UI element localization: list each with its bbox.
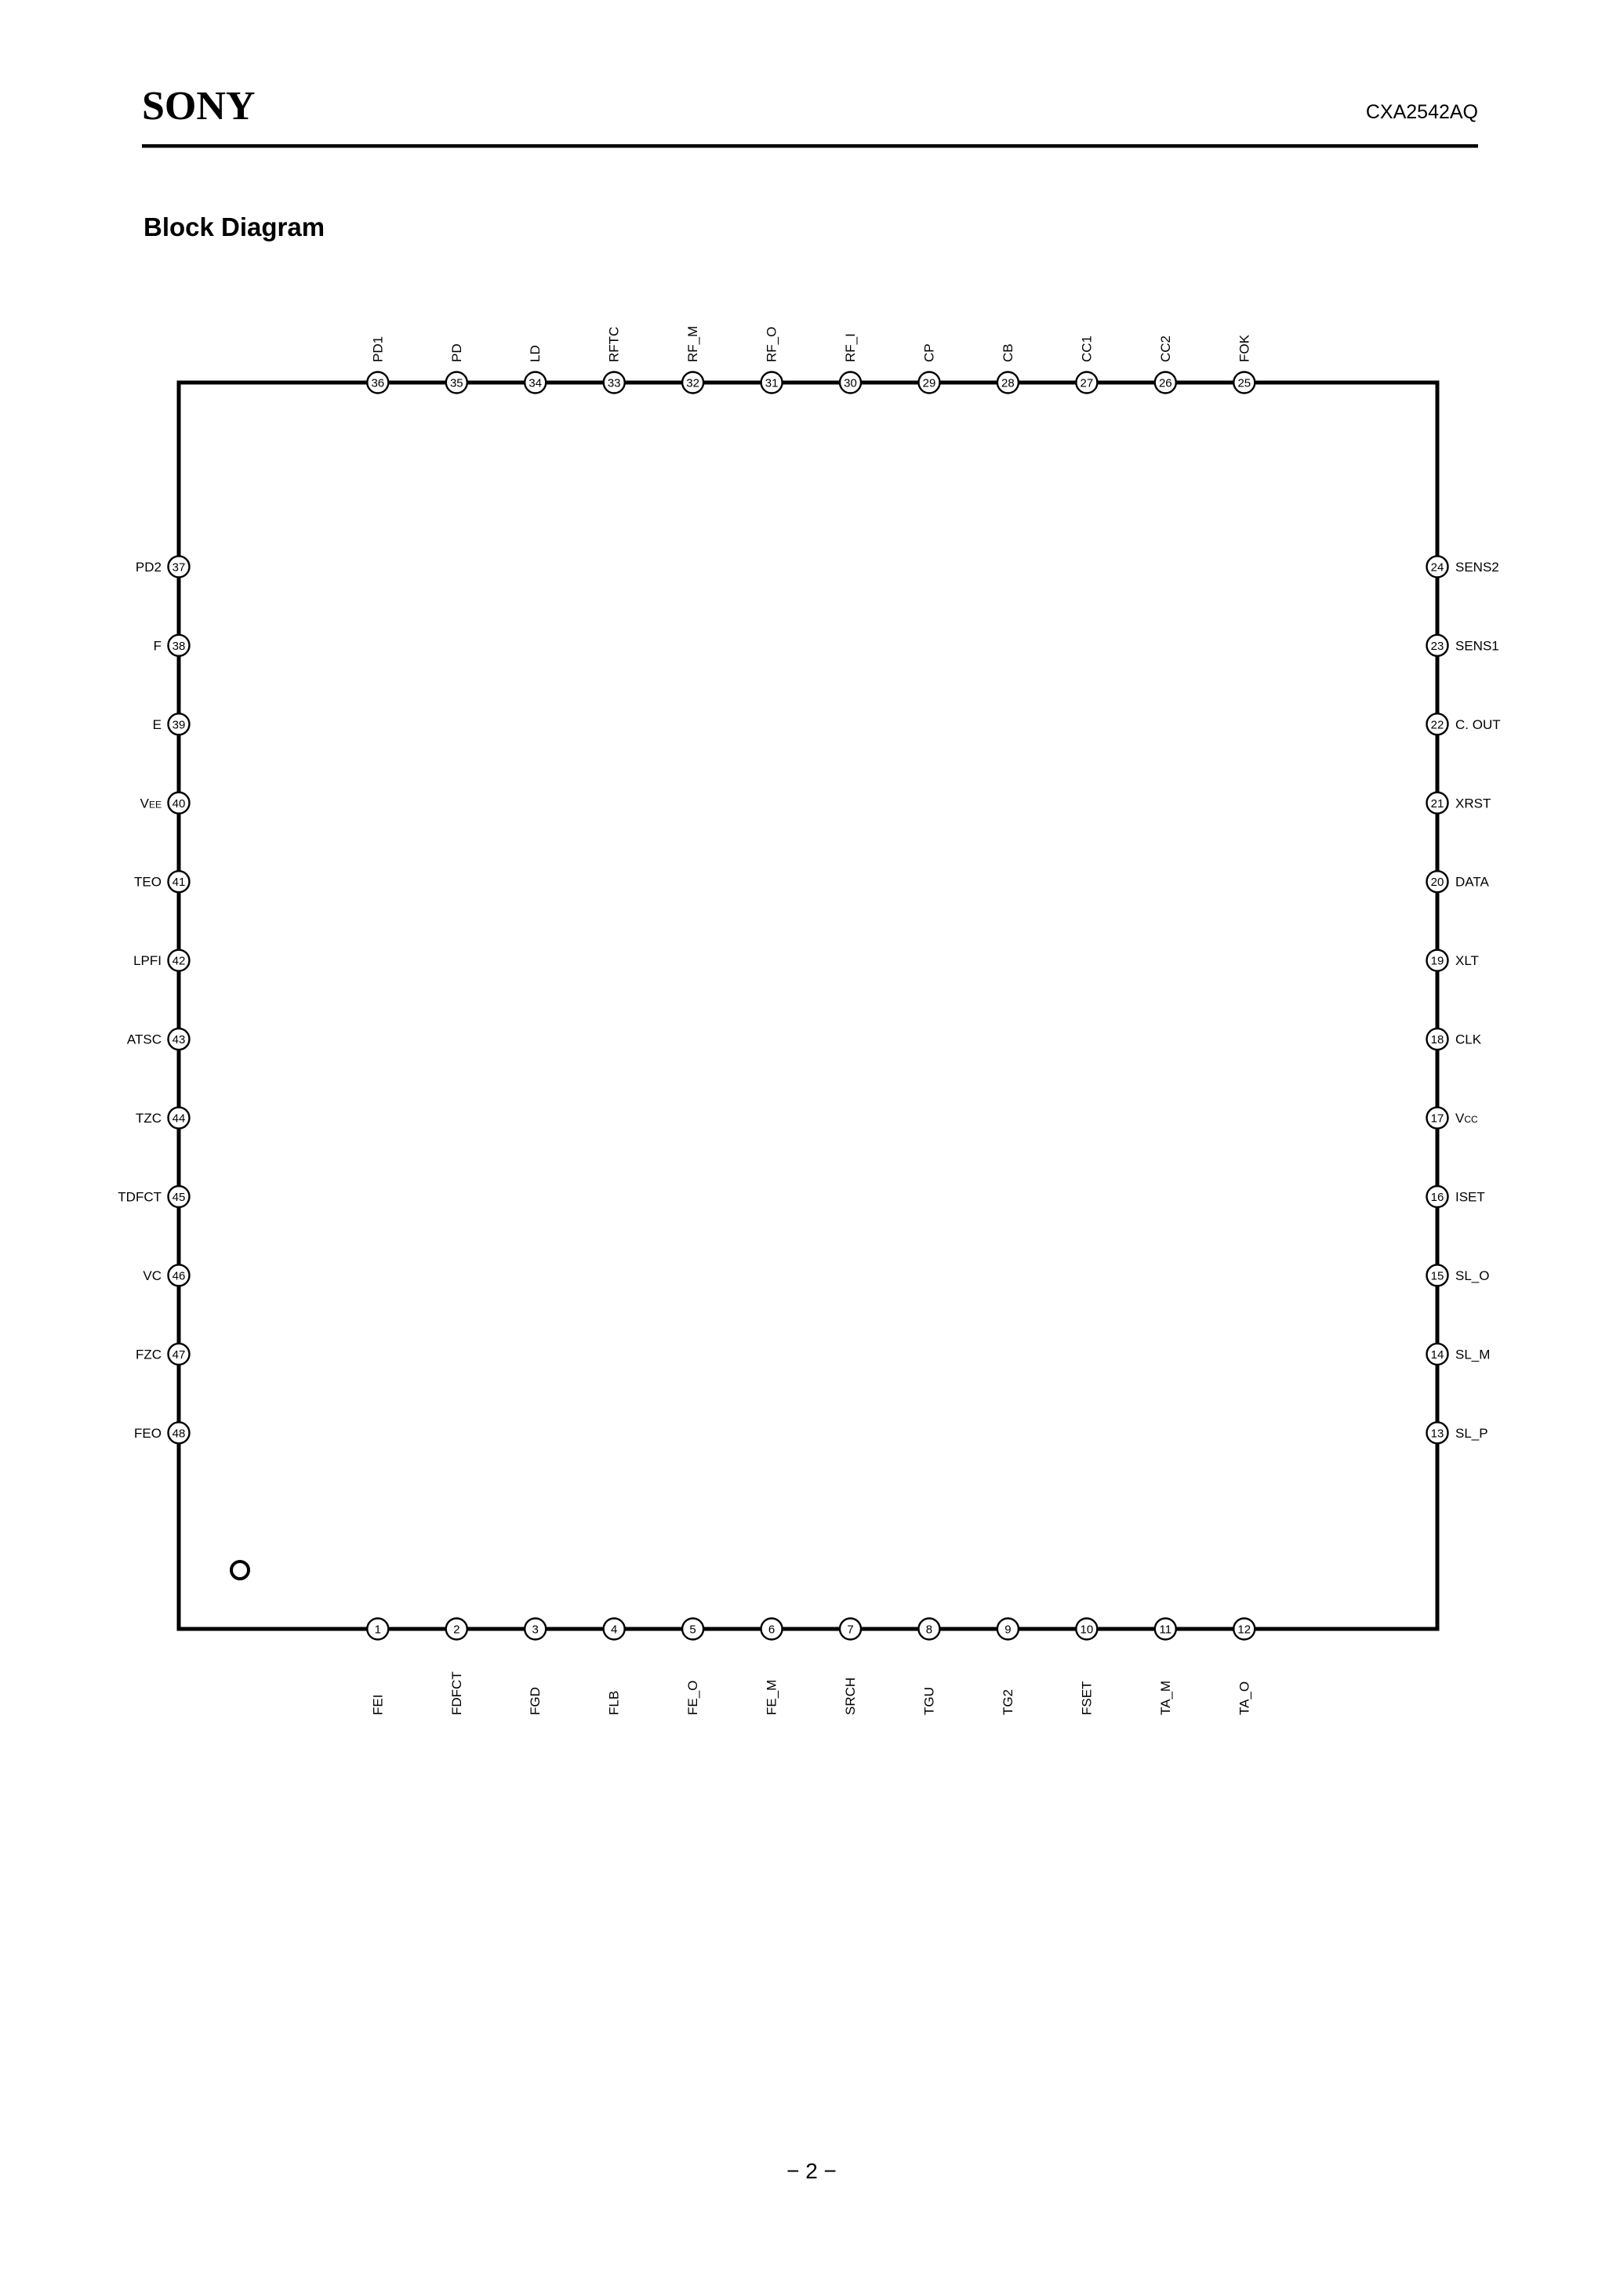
svg-text:31: 31 [765,377,779,390]
pin 39 [169,713,190,735]
svg-text:14: 14 [1431,1348,1444,1362]
svg-text:10: 10 [1081,1623,1094,1637]
pin 5 (FE_O) [682,1619,703,1640]
header rule [142,144,1478,148]
svg-text:23: 23 [1431,640,1444,653]
svg-text:28: 28 [1001,377,1015,390]
pin 3 (FGD) [525,1619,546,1640]
svg-text:FDFCT: FDFCT [449,1671,464,1715]
pin 7 (SRCH) [840,1619,861,1640]
svg-text:SL_M: SL_M [1455,1347,1490,1362]
pin 26 (CC2) [1155,372,1176,394]
pin 14 [1427,1344,1448,1365]
pin 15 [1427,1264,1448,1286]
pin 29 (CP) [919,372,940,394]
svg-text:16: 16 [1431,1191,1444,1204]
svg-text:TDFCT: TDFCT [118,1190,162,1205]
svg-text:13: 13 [1431,1427,1444,1440]
svg-text:FE_O: FE_O [685,1681,700,1715]
svg-text:RF_I: RF_I [843,333,858,362]
pin 10 (FSET) [1076,1619,1097,1640]
svg-text:19: 19 [1431,955,1444,968]
svg-text:1: 1 [375,1623,381,1637]
svg-text:18: 18 [1431,1033,1444,1046]
svg-text:40: 40 [173,797,186,811]
pin 24 [1427,556,1448,577]
pin 37 [169,556,190,577]
pin 6 (FE_M) [761,1619,783,1640]
svg-text:PD: PD [449,343,464,362]
pin 48 [169,1422,190,1443]
svg-text:RF_O: RF_O [765,327,779,362]
IC outline border [179,383,1437,1629]
pin 40 [169,793,190,814]
svg-text:TZC: TZC [136,1111,162,1126]
svg-text:30: 30 [844,377,857,390]
svg-text:3: 3 [532,1623,539,1637]
svg-text:SL_P: SL_P [1455,1426,1488,1441]
pin 45 [169,1186,190,1207]
svg-text:SONY: SONY [142,84,255,129]
svg-text:FLB: FLB [607,1691,622,1715]
pin 18 [1427,1028,1448,1050]
pin 42 [169,950,190,971]
svg-text:CC2: CC2 [1158,336,1173,362]
svg-text:24: 24 [1431,560,1444,574]
pin 41 [169,871,190,892]
pin 12 (TA_O) [1233,1619,1255,1640]
svg-text:CXA2542AQ: CXA2542AQ [1366,101,1478,123]
svg-text:Block Diagram: Block Diagram [143,212,325,241]
svg-text:21: 21 [1431,797,1444,811]
svg-text:TA_M: TA_M [1158,1681,1173,1715]
pin 33 (RFTC) [604,372,625,394]
svg-text:FE_M: FE_M [765,1680,779,1715]
svg-text:FEI: FEI [370,1695,385,1715]
pin 36 (PD1) [367,372,388,394]
svg-text:47: 47 [173,1348,186,1362]
pin 27 (CC1) [1076,372,1097,394]
pin 34 (LD) [525,372,546,394]
svg-text:FGD: FGD [528,1687,543,1715]
svg-text:LD: LD [528,345,543,362]
pin 44 [169,1108,190,1129]
pin 1 (FEI) [367,1619,388,1640]
svg-text:27: 27 [1081,377,1094,390]
svg-text:15: 15 [1431,1269,1444,1282]
pin 22 [1427,713,1448,735]
svg-text:35: 35 [450,377,463,390]
svg-text:32: 32 [686,377,699,390]
pin 20 [1427,871,1448,892]
pin 8 (TGU) [918,1619,939,1640]
pin 1 indicator circle [231,1561,249,1579]
pin 25 (FOK) [1233,372,1255,394]
svg-text:RF_M: RF_M [685,326,700,362]
pin 16 [1427,1186,1448,1207]
svg-text:− 2 −: − 2 − [786,2159,837,2183]
svg-text:FOK: FOK [1237,334,1251,362]
pin 13 [1427,1422,1448,1443]
pin 21 [1427,793,1448,814]
svg-text:5: 5 [689,1623,696,1637]
svg-text:PD2: PD2 [136,560,162,575]
svg-text:25: 25 [1237,377,1251,390]
pin 4 (FLB) [604,1619,625,1640]
svg-text:43: 43 [173,1033,186,1046]
svg-text:29: 29 [923,377,936,390]
pin 32 (RFM) [682,372,703,394]
pin 43 [169,1028,190,1050]
svg-text:C. OUT: C. OUT [1455,717,1501,732]
svg-text:37: 37 [173,560,186,574]
svg-text:TA_O: TA_O [1237,1681,1251,1715]
svg-text:9: 9 [1004,1623,1011,1637]
svg-text:4: 4 [611,1623,617,1637]
pin 38 [169,635,190,656]
svg-text:DATA: DATA [1455,875,1489,890]
pin 31 (RFO) [761,372,783,394]
svg-text:TGU: TGU [921,1687,936,1715]
svg-text:FSET: FSET [1079,1681,1094,1715]
pin 35 (PD) [446,372,467,394]
pin 9 (TG2) [997,1619,1019,1640]
svg-text:FEO: FEO [134,1426,162,1441]
svg-text:PD1: PD1 [370,336,385,362]
svg-text:LPFI: LPFI [133,953,162,968]
svg-text:38: 38 [173,640,186,653]
svg-text:RFTC: RFTC [607,327,622,362]
svg-text:36: 36 [371,377,384,390]
svg-text:12: 12 [1237,1623,1251,1637]
svg-text:ATSC: ATSC [127,1032,162,1047]
pin 17 [1427,1108,1448,1129]
svg-text:SRCH: SRCH [843,1678,858,1715]
svg-text:45: 45 [173,1191,186,1204]
svg-text:CB: CB [1001,343,1015,362]
svg-text:42: 42 [173,955,186,968]
svg-text:11: 11 [1160,1623,1172,1637]
svg-text:34: 34 [528,377,542,390]
svg-text:CC1: CC1 [1079,336,1094,362]
svg-text:ISET: ISET [1455,1190,1485,1205]
pin 28 (CB) [997,372,1019,394]
svg-text:6: 6 [768,1623,775,1637]
svg-text:41: 41 [173,876,186,889]
svg-text:SENS1: SENS1 [1455,638,1499,653]
pin 11 (TA_M) [1155,1619,1176,1640]
svg-text:SL_O: SL_O [1455,1268,1489,1283]
svg-text:FZC: FZC [136,1347,162,1362]
svg-text:VC: VC [143,1268,162,1283]
svg-text:TEO: TEO [134,875,162,890]
pin 30 (RFI) [840,372,861,394]
svg-text:F: F [154,638,162,653]
svg-text:22: 22 [1431,718,1444,731]
svg-text:XLT: XLT [1455,953,1479,968]
svg-text:33: 33 [608,377,621,390]
svg-text:E: E [153,717,162,732]
pin 47 [169,1344,190,1365]
svg-text:XRST: XRST [1455,796,1491,811]
svg-text:2: 2 [453,1623,459,1637]
pin 46 [169,1264,190,1286]
pin 2 (FDFCT) [446,1619,467,1640]
svg-text:46: 46 [173,1269,186,1282]
svg-text:44: 44 [173,1112,186,1126]
svg-text:TG2: TG2 [1001,1689,1015,1715]
svg-text:17: 17 [1431,1112,1444,1126]
pin 19 [1427,950,1448,971]
svg-text:26: 26 [1159,377,1172,390]
pin 23 [1427,635,1448,656]
svg-text:8: 8 [926,1623,932,1637]
svg-text:20: 20 [1431,876,1444,889]
svg-text:48: 48 [173,1427,186,1440]
svg-text:SENS2: SENS2 [1455,560,1499,575]
svg-text:CP: CP [922,343,937,362]
svg-text:CLK: CLK [1455,1032,1482,1047]
svg-text:7: 7 [847,1623,853,1637]
svg-text:39: 39 [173,718,186,731]
